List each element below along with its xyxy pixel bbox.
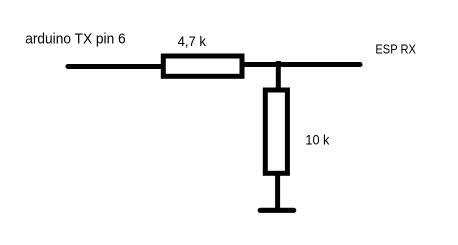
- resistor R2 (10 k) body: [265, 90, 287, 173]
- resistor R1 (4,7 k) body: [163, 56, 242, 76]
- wire: arduino TX to resistor R1 left lead: [68, 64, 163, 69]
- wire: resistor R1 right lead to ESP RX: [243, 62, 360, 67]
- svg-text:arduino TX pin 6: arduino TX pin 6: [25, 32, 126, 48]
- svg-text:4,7 k: 4,7 k: [178, 34, 207, 49]
- svg-text:10 k: 10 k: [305, 133, 330, 149]
- junction + wire: node to resistor R2 top lead: [276, 61, 281, 90]
- ground: [260, 208, 294, 213]
- wire: resistor R2 bottom lead to ground: [275, 173, 280, 210]
- svg-text:ESP RX: ESP RX: [375, 41, 416, 56]
